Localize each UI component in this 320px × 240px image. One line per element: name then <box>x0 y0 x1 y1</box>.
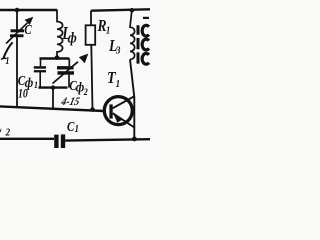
svg-text:1: 1 <box>116 79 120 90</box>
svg-text:10: 10 <box>18 87 28 101</box>
svg-text:С: С <box>24 22 32 37</box>
svg-text:С: С <box>67 119 75 135</box>
svg-text:1: 1 <box>34 79 38 90</box>
svg-text:R: R <box>97 17 107 36</box>
svg-text:ф: ф <box>68 30 77 46</box>
svg-text:Т: Т <box>107 69 116 87</box>
svg-text:4-15: 4-15 <box>59 95 81 108</box>
svg-text:3: 3 <box>115 45 120 57</box>
svg-text:2: 2 <box>83 86 88 97</box>
svg-text:1: 1 <box>75 125 79 136</box>
svg-text:1: 1 <box>106 26 110 37</box>
svg-text:1: 1 <box>5 55 9 66</box>
svg-text:L: L <box>0 118 2 137</box>
svg-text:2: 2 <box>5 127 10 139</box>
